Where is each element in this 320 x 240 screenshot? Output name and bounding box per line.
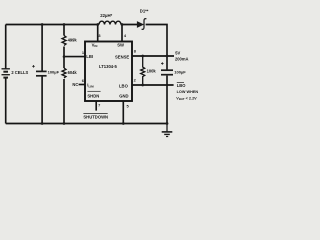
battery B1 2 cells xyxy=(2,69,10,78)
wire diode cathode to top-right corner and down right side xyxy=(146,25,167,70)
svg-text:LBO: LBO xyxy=(177,83,186,88)
wire LBI pin 1 horizontal xyxy=(64,56,85,58)
svg-text:604k: 604k xyxy=(68,70,78,75)
ground xyxy=(162,124,173,137)
wire top rail left (battery+ to VIN node) xyxy=(6,24,99,26)
svg-text:100µF: 100µF xyxy=(48,70,60,75)
svg-text:SHDN: SHDN xyxy=(87,93,99,98)
wire left vertical battery bottom xyxy=(5,78,7,124)
wire LBI node to 604k xyxy=(63,57,65,68)
svg-text:499k: 499k xyxy=(68,37,78,42)
svg-text:22µH*: 22µH* xyxy=(100,13,112,18)
svg-text:NC: NC xyxy=(72,82,78,87)
svg-text:GND: GND xyxy=(119,93,128,98)
svg-text:2 CELLS: 2 CELLS xyxy=(11,70,28,75)
wire LBO pin 2 horizontal xyxy=(132,84,174,86)
wire SHDN pin 7 vertical xyxy=(95,101,97,111)
wire left vertical battery top xyxy=(5,25,7,69)
svg-text:VIN: VIN xyxy=(92,42,98,48)
op-amp U1 LT1304-5 box xyxy=(85,42,132,102)
svg-text:100µF: 100µF xyxy=(174,70,186,75)
inductor L1 22uH xyxy=(99,21,121,24)
svg-text:LT1304-5: LT1304-5 xyxy=(99,64,118,69)
capacitor C1 100uF input xyxy=(32,65,46,76)
wire SENSE pin 8 to output node and 5V tap xyxy=(132,55,174,57)
wire NC to ILIM pin 6 xyxy=(79,84,85,86)
wire 604k to bottom rail xyxy=(63,79,65,124)
svg-text:SENSE: SENSE xyxy=(115,54,129,59)
wire output cap bottom xyxy=(166,76,168,124)
resistor R1 499k xyxy=(62,36,66,46)
resistor R3 100k xyxy=(141,56,145,85)
svg-text:5V: 5V xyxy=(175,50,180,55)
svg-text:LOW WHEN: LOW WHEN xyxy=(177,90,199,94)
node junction dots xyxy=(41,23,169,125)
svg-text:100k: 100k xyxy=(147,69,157,74)
capacitor C2 100uF output xyxy=(161,62,173,74)
svg-text:LBO: LBO xyxy=(119,84,129,89)
svg-text:LBI: LBI xyxy=(86,54,93,59)
wire divider top (rail to 499k) xyxy=(63,25,65,36)
resistor R2 604k xyxy=(62,68,66,78)
svg-text:D1**: D1** xyxy=(140,9,149,14)
wire input cap bottom xyxy=(41,76,43,123)
wire VIN pin 3 vertical xyxy=(97,25,99,42)
svg-text:200mA: 200mA xyxy=(175,56,188,61)
wire bottom ground rail xyxy=(6,123,167,125)
wire input cap top xyxy=(41,25,43,72)
svg-text:SW: SW xyxy=(117,43,124,48)
svg-text:ILIM: ILIM xyxy=(87,83,94,89)
wire top rail SW node to diode anode xyxy=(121,24,138,26)
svg-text:SHUTDOWN: SHUTDOWN xyxy=(83,114,108,119)
wire SW pin 4 vertical xyxy=(121,25,123,42)
wire 499k to LBI node xyxy=(63,47,65,57)
wire GND pin 5 vertical xyxy=(122,101,124,124)
svg-text:7: 7 xyxy=(98,102,100,107)
diode D1 schottky xyxy=(137,19,147,30)
